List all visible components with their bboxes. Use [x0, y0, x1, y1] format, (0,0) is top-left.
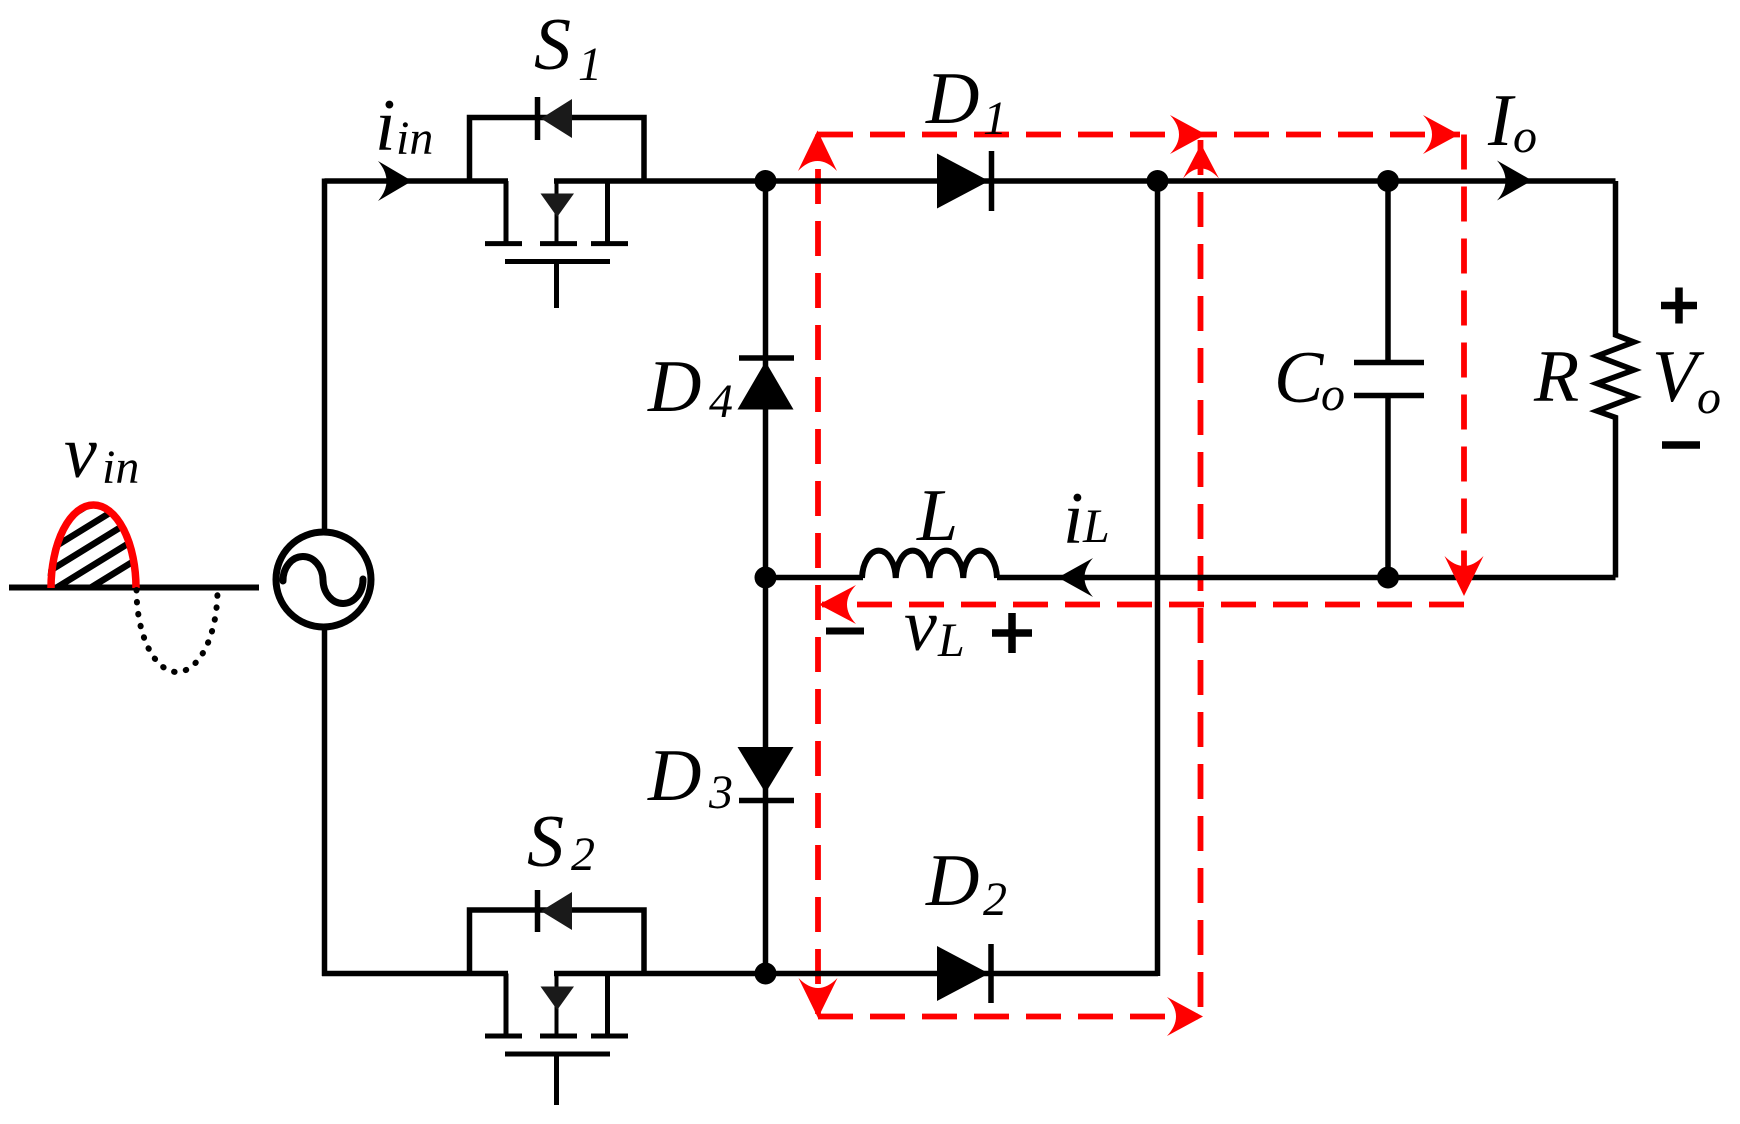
- node D (D4/D3 midpoint junction): [755, 567, 777, 589]
- wire D4/D3 leg vertical: [763, 181, 769, 974]
- switch S2 right lead: [605, 974, 610, 1035]
- wire mid rail left (node to inductor): [766, 575, 864, 581]
- red arrow right (on top line at x=1203): [1170, 115, 1206, 154]
- switch S2 drain lead: [504, 974, 509, 1035]
- diode D3 triangle: [738, 747, 794, 793]
- svg-text:D: D: [925, 840, 979, 922]
- red current path: top horizontal (y=134.5): [818, 132, 1460, 138]
- svg-text:C: C: [1274, 337, 1325, 419]
- svg-text:S: S: [527, 801, 564, 883]
- switch S1 gate bar: [505, 259, 610, 264]
- svg-text:D: D: [925, 58, 979, 140]
- switch S2 gate lead: [554, 1057, 559, 1106]
- switch S1 right lead: [605, 181, 610, 242]
- svg-text:v: v: [64, 412, 97, 494]
- svg-text:R: R: [1533, 336, 1579, 418]
- arrow i_L: [1058, 558, 1093, 597]
- switch S1 internal diode triangle: [541, 194, 575, 218]
- node A (D4/D3 top rail junction): [755, 170, 777, 192]
- waveform v_in positive half-sine (red): [51, 505, 136, 588]
- ac source Vin circle: [276, 532, 371, 627]
- wire mid rail right (inductor to R bottom corner): [997, 575, 1616, 581]
- waveform v_in hatch lines: [30, 440, 160, 625]
- svg-text:in: in: [396, 112, 433, 165]
- switch S2 source/body lead: [555, 974, 559, 1035]
- node B (D1 cathode junction): [1147, 170, 1169, 192]
- svg-text:I: I: [1487, 80, 1516, 162]
- switch S2 body diode triangle: [541, 892, 572, 930]
- wire bottom rail left (source to S2 drain): [322, 971, 508, 977]
- wire bottom rail right (S2 source to D2 leg corner): [554, 971, 1158, 977]
- diode D3 cathode bar: [739, 798, 794, 804]
- svg-text:L: L: [1082, 500, 1110, 553]
- red current path: right vertical (x=1464): [1461, 135, 1467, 601]
- red arrow up (top of x=1200.5): [1183, 144, 1219, 179]
- arrow I_o: [1497, 161, 1532, 201]
- switch S1 drain lead: [504, 181, 509, 242]
- red current path: left vertical (x=818): [815, 135, 821, 1015]
- red arrow right (end of top line): [1423, 115, 1459, 154]
- node F (S2/D3 bottom rail junction): [755, 963, 777, 985]
- resistor R: [1597, 181, 1634, 578]
- diode D4 triangle: [738, 362, 794, 410]
- svg-text:o: o: [1697, 371, 1721, 424]
- switch S1 body-diode loop wires: [470, 118, 645, 182]
- svg-text:v: v: [904, 585, 937, 667]
- label minus (v_L): [826, 628, 864, 635]
- switch S1 body diode triangle: [541, 99, 572, 138]
- capacitor Co bottom lead: [1385, 398, 1391, 578]
- switch S1 source/body lead: [555, 181, 559, 242]
- red arrow right (end of bottom horizontal): [1167, 997, 1203, 1036]
- waveform v_in axis: [9, 585, 259, 591]
- svg-text:L: L: [916, 475, 958, 557]
- switch S2 gate bar: [505, 1052, 610, 1057]
- diode D2 cathode bar: [988, 944, 994, 1003]
- red arrow up (top of x=818): [798, 131, 837, 172]
- svg-text:2: 2: [983, 873, 1007, 926]
- diode D2 triangle: [937, 946, 989, 1001]
- ac source sine symbol: [283, 557, 363, 604]
- node E (Co bottom junction): [1377, 567, 1399, 589]
- capacitor Co plates: [1354, 363, 1424, 396]
- switch S1 body diode cathode bar: [535, 97, 541, 140]
- red arrow left (end of middle horizontal): [819, 585, 856, 624]
- diode D1 triangle: [937, 154, 989, 209]
- node C (Co top junction): [1377, 170, 1399, 192]
- red current path: mid vertical (x=1200.5): [1198, 140, 1204, 1017]
- switch S2 body diode cathode bar: [535, 890, 541, 932]
- diode D4 cathode bar: [739, 355, 794, 361]
- wire top rail left (source to S1 drain): [325, 178, 509, 184]
- red arrow down (end of x=1464): [1445, 556, 1484, 596]
- svg-text:1: 1: [578, 38, 602, 91]
- switch S1 gate lead: [554, 264, 559, 308]
- svg-text:1: 1: [983, 92, 1007, 145]
- svg-text:2: 2: [571, 828, 595, 881]
- label plus (V_o): [1661, 288, 1697, 324]
- capacitor Co top lead: [1385, 181, 1391, 360]
- diode D1 cathode bar: [989, 151, 995, 211]
- svg-text:4: 4: [709, 375, 733, 428]
- svg-text:i: i: [1063, 478, 1084, 560]
- wire right leg vertical (D1/D2 cathode leg): [1155, 181, 1161, 976]
- svg-text:D: D: [647, 346, 701, 428]
- arrow i_in: [378, 161, 412, 201]
- svg-text:in: in: [102, 441, 139, 494]
- switch S2 internal diode triangle: [541, 987, 575, 1011]
- red current path: bottom horizontal (y=1016.5): [818, 1014, 1198, 1020]
- svg-text:D: D: [647, 735, 701, 817]
- label plus (v_L): [992, 613, 1032, 653]
- switch S1 channel stubs: [485, 241, 628, 246]
- wire left vertical upper (source top): [322, 179, 328, 534]
- svg-text:3: 3: [708, 766, 733, 819]
- label minus (V_o): [1662, 441, 1700, 449]
- svg-text:i: i: [375, 85, 396, 167]
- switch S2 body-diode loop wires: [470, 910, 645, 974]
- svg-text:S: S: [534, 4, 571, 86]
- svg-text:o: o: [1321, 368, 1345, 421]
- svg-text:L: L: [937, 614, 965, 667]
- inductor L: [862, 551, 997, 578]
- wire left vertical lower (source bottom): [322, 627, 328, 976]
- svg-text:o: o: [1513, 110, 1537, 163]
- red arrow down (bottom of x=818): [799, 978, 838, 1018]
- wire top rail right (S1 source to R top corner): [554, 178, 1616, 184]
- waveform v_in negative half-sine (dotted): [137, 590, 218, 672]
- switch S2 channel stubs: [485, 1034, 628, 1039]
- red current path: middle horizontal (y=604.5): [822, 602, 1464, 608]
